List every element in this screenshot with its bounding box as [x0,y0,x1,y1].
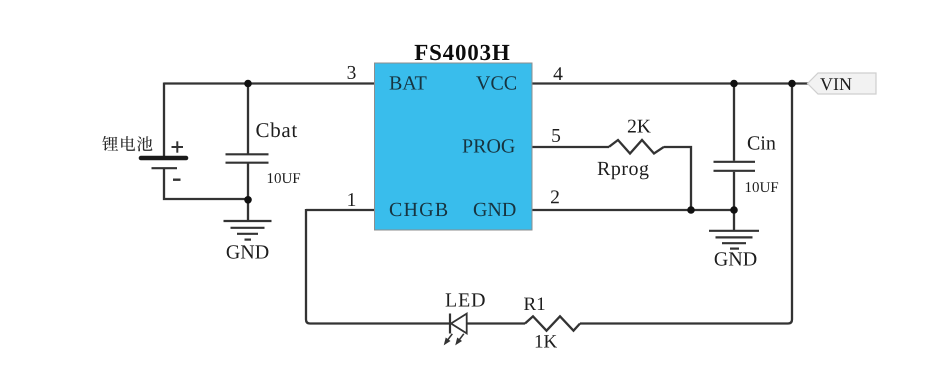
node: Cin top junction [730,80,738,88]
battery minus sign [173,178,181,180]
node: VIN rail junction [788,80,796,88]
wire: battery positive vertical drop [163,83,165,157]
value 10UF (Cbat) [268,173,300,183]
wire: PROG pin 5 to Rprog [532,146,609,148]
pin label PROG [463,139,515,152]
label LED [446,293,485,306]
value 1K [536,335,557,348]
wire: right GND stem [733,210,735,230]
value 2K [628,120,651,133]
ground symbol (battery/Cbat) [224,221,272,240]
LED D1 triangle [451,314,467,334]
capacitor Cbat plates [226,154,269,162]
wire: Cin bottom stem [733,172,735,210]
value 10UF (Cin) [746,182,778,192]
pin number 2 [551,190,559,203]
wire: battery+ to BAT pin 3 (top-left net) [164,82,375,84]
pin number 3 [348,66,356,79]
battery BT1 positive plate (long thick) [141,156,186,161]
label: 锂电池 (lithium battery) [102,136,152,151]
battery BT1 negative plate (short thin) [152,167,178,169]
wire: GND pin 2 horizontal [532,209,734,211]
IC U1 FS4003H charger body [375,63,533,230]
node: Cbat top junction [244,80,252,88]
label R1 [524,298,545,311]
LED emission arrows [445,334,464,344]
resistor Rprog zigzag [609,140,664,154]
wire: battery negative to ground net [164,169,248,199]
node: Rprog to GND-net junction [687,206,695,214]
label VIN [820,78,851,90]
wire: left GND stem [247,200,249,220]
label Cin [748,136,776,149]
wire: pin 1 drop to bottom rail [306,209,450,324]
pin number 4 [554,67,563,80]
pin label VCC [476,76,516,90]
label Cbat [256,122,297,137]
label: FS4003H title [415,45,510,61]
wire: CHGB pin 1 horizontal [306,209,375,211]
label GND (right) [715,252,757,265]
battery plus sign [172,141,184,152]
capacitor Cin plates [714,162,756,171]
wire: LED to R1 [468,322,526,324]
node VIN input tag [808,73,877,94]
wire: Cbat bottom stem [247,164,249,201]
pin number 5 [552,129,560,142]
wire: R1 to right rail [580,84,792,324]
wire: VCC pin 4 to VIN [532,82,808,84]
node: Cbat bottom junction [244,196,252,204]
resistor R1 zigzag [525,316,580,330]
pin number 1 [348,193,355,206]
label GND (left) [227,245,269,258]
wire: Cin top stem [733,84,735,161]
pin label CHGB [390,203,447,216]
wire: Rprog output down to GND net [664,147,691,210]
ground symbol (Cin/GND pin) [709,231,759,249]
pin label BAT [390,76,427,89]
label Rprog [598,162,649,179]
wire: Cbat top stem [247,84,249,154]
pin label GND [474,203,516,216]
node: Cin bottom / GND junction [730,206,738,214]
LED D1 cathode bar [449,314,451,334]
